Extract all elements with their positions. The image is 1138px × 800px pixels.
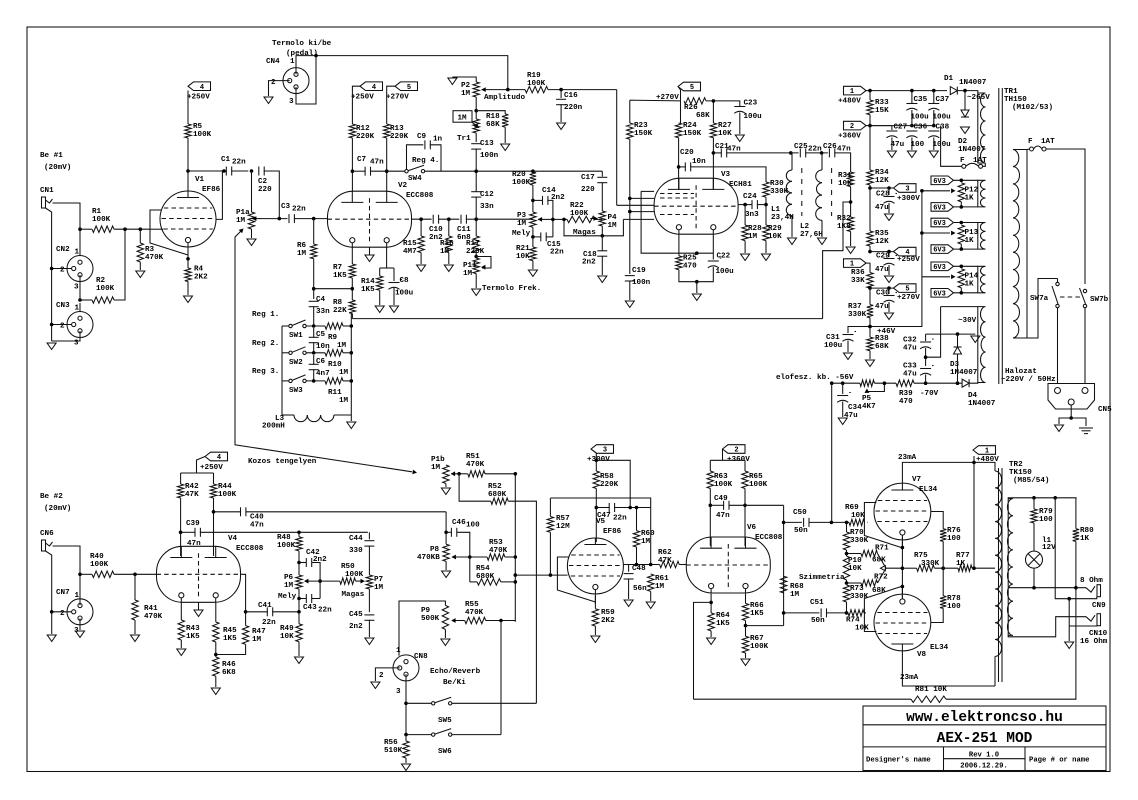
wire R60 bottom xyxy=(636,547,638,565)
svg-text:470K: 470K xyxy=(144,613,163,621)
svg-text:47K: 47K xyxy=(185,491,199,499)
wire xyxy=(678,253,680,256)
wire xyxy=(475,219,477,236)
junction xyxy=(709,601,713,605)
potentiometer P5 xyxy=(860,380,875,386)
junction xyxy=(562,218,566,222)
wire reg left bus xyxy=(281,326,283,415)
svg-text:Mely: Mely xyxy=(512,230,531,238)
svg-text:SW7b: SW7b xyxy=(1090,296,1109,304)
wire to C29 xyxy=(888,252,890,257)
svg-text:Rev 1.0: Rev 1.0 xyxy=(969,752,999,760)
wiper P1b xyxy=(451,473,459,475)
winding TR1 6V3 winding P13 xyxy=(978,223,986,250)
svg-text:470K: 470K xyxy=(465,609,484,617)
ground xyxy=(846,247,855,254)
svg-text:3: 3 xyxy=(289,98,294,106)
resistor R51 xyxy=(468,471,485,477)
wire R26 to R27 xyxy=(706,101,713,123)
resistor R41 xyxy=(132,600,138,620)
diode D3 xyxy=(954,347,962,354)
svg-text:33n: 33n xyxy=(480,203,494,211)
wire xyxy=(850,232,852,247)
wire xyxy=(459,473,468,475)
resistor R37 xyxy=(867,305,873,318)
svg-text:P1a: P1a xyxy=(236,209,250,217)
wire to R49 xyxy=(298,599,300,624)
junction xyxy=(868,124,872,128)
resistor R49 xyxy=(296,624,302,642)
wire xyxy=(379,268,381,276)
wire C14 right down xyxy=(547,200,553,237)
wire CN1 to bus xyxy=(46,208,52,341)
wire to R18 xyxy=(476,111,505,114)
ground xyxy=(47,343,56,350)
svg-text:C33: C33 xyxy=(903,363,917,371)
wire C2 right down xyxy=(264,171,280,219)
switch SW2 xyxy=(289,351,292,354)
wire V3 g line1 xyxy=(641,190,654,192)
svg-text:EL34: EL34 xyxy=(919,486,938,494)
svg-text:56n: 56n xyxy=(633,585,647,593)
wire xyxy=(214,511,241,513)
resistor R45 xyxy=(213,622,219,642)
svg-text:R51: R51 xyxy=(466,453,480,461)
winding TR1 HV winding xyxy=(978,93,986,163)
svg-text:1M: 1M xyxy=(339,369,349,377)
wire to C16 xyxy=(560,90,562,98)
earth ground xyxy=(1079,427,1093,429)
wire xyxy=(80,299,92,301)
wire V3 g line3 xyxy=(617,204,654,206)
wire xyxy=(245,612,247,626)
wire R6 to C4 xyxy=(313,259,315,299)
wire reg right bus xyxy=(350,314,352,416)
svg-text:R38: R38 xyxy=(875,335,889,343)
svg-text:C9: C9 xyxy=(417,133,427,141)
resistor R48 xyxy=(296,537,302,551)
svg-text:200mH: 200mH xyxy=(262,423,285,431)
wire CN3 pin1 xyxy=(79,303,81,312)
svg-text:SW1: SW1 xyxy=(289,332,303,340)
svg-text:470KB: 470KB xyxy=(417,554,440,562)
capacitor C1 xyxy=(225,167,227,176)
svg-text:C7: C7 xyxy=(357,156,367,164)
svg-text:10K: 10K xyxy=(848,565,862,573)
svg-text:R75: R75 xyxy=(914,552,928,560)
ground xyxy=(177,649,186,656)
junction xyxy=(297,531,301,535)
wire to P3 node xyxy=(476,218,533,220)
junction xyxy=(297,561,301,565)
svg-text:6V3: 6V3 xyxy=(933,247,946,255)
wire CN4 pin3 xyxy=(296,56,316,104)
svg-text:R67: R67 xyxy=(750,635,764,643)
wire R42 to anode1 xyxy=(180,498,182,556)
resistor R43 xyxy=(178,620,184,640)
wire sec top xyxy=(1008,497,1076,500)
wire C32 top xyxy=(926,333,976,335)
wire xyxy=(629,281,631,301)
ground xyxy=(646,602,655,609)
svg-text:R2: R2 xyxy=(96,277,106,285)
wire P6 wiper to R50 xyxy=(310,580,340,582)
ground xyxy=(211,688,220,695)
wire V7 g2 xyxy=(931,512,943,529)
wire xyxy=(869,91,871,100)
junction xyxy=(447,217,451,221)
svg-text:3: 3 xyxy=(74,284,79,292)
junction xyxy=(910,89,914,93)
junction xyxy=(868,325,872,329)
wire bus A xyxy=(514,474,516,622)
svg-text:C24: C24 xyxy=(743,193,757,201)
wire xyxy=(891,138,893,151)
resistor R69 xyxy=(849,519,865,525)
switch SW3 xyxy=(289,379,292,382)
svg-text:R1: R1 xyxy=(92,208,102,216)
winding TR2 secondary xyxy=(1007,499,1013,636)
wire xyxy=(745,621,747,637)
svg-text:R53: R53 xyxy=(489,539,503,547)
junction xyxy=(677,165,681,169)
resistor R12 xyxy=(349,124,355,138)
capacitor C13 xyxy=(471,143,481,145)
wire to R21 xyxy=(532,237,534,247)
wire xyxy=(313,328,315,338)
svg-text:4M7: 4M7 xyxy=(403,248,417,256)
capacitor C20 xyxy=(684,162,686,171)
svg-text:150K: 150K xyxy=(683,130,702,138)
ground xyxy=(472,289,481,296)
junction xyxy=(222,169,226,173)
resistor R65 xyxy=(742,471,748,489)
capacitor C26 xyxy=(828,148,830,157)
wire xyxy=(313,369,315,381)
svg-text:1N4007: 1N4007 xyxy=(959,79,987,87)
svg-text:100n: 100n xyxy=(632,279,651,287)
wire xyxy=(925,348,927,366)
capacitor C51 xyxy=(820,608,822,617)
svg-text:V7: V7 xyxy=(912,476,922,484)
svg-text:R40: R40 xyxy=(90,553,104,561)
power flag 2 +360V xyxy=(844,121,867,130)
switch SW1 xyxy=(289,324,292,327)
wire xyxy=(888,203,890,213)
junction xyxy=(841,381,845,385)
svg-text:Designer's name: Designer's name xyxy=(866,757,931,765)
svg-text:SW3: SW3 xyxy=(289,387,303,395)
wire xyxy=(744,205,746,225)
L1 core xyxy=(801,168,803,216)
junction xyxy=(350,324,354,328)
ground V4 shield xyxy=(194,610,203,617)
resistor R22 xyxy=(567,216,595,222)
ground xyxy=(76,631,85,638)
wire V3 g line2 xyxy=(630,197,654,199)
svg-text:Mely: Mely xyxy=(278,593,297,601)
junction xyxy=(595,506,599,510)
wire xyxy=(246,611,268,613)
junction xyxy=(649,563,653,567)
potentiometer P9 xyxy=(442,605,448,629)
svg-text:R81 10K: R81 10K xyxy=(915,686,947,694)
wire to SW6 xyxy=(500,621,502,735)
ground xyxy=(741,659,750,666)
svg-text:www.elektroncso.hu: www.elektroncso.hu xyxy=(906,710,1063,726)
wire R24 to anode xyxy=(678,138,680,190)
capacitor C12 xyxy=(471,191,481,193)
svg-text:50n: 50n xyxy=(811,617,825,625)
svg-text:1K: 1K xyxy=(965,195,975,203)
capacitor C46 xyxy=(450,528,452,537)
junction xyxy=(297,597,301,601)
power flag 4 +250V d xyxy=(205,452,228,461)
diode D1 xyxy=(950,87,957,95)
svg-text:100K: 100K xyxy=(193,131,212,139)
wire CN5 earth left xyxy=(1059,405,1071,424)
wire R72 to wiper xyxy=(878,568,887,583)
capacitor C35 xyxy=(906,103,917,105)
wire xyxy=(1033,498,1035,509)
wire R34 down xyxy=(869,185,871,231)
wire C9 loop right xyxy=(430,145,441,171)
junction xyxy=(960,179,964,183)
svg-text:P13: P13 xyxy=(965,229,979,237)
ground V2 shield xyxy=(365,255,374,262)
svg-text:330K: 330K xyxy=(921,560,940,568)
power flag 6V3 1b xyxy=(931,245,954,254)
svg-text:Magas: Magas xyxy=(573,229,596,237)
wire CN9 sleeve xyxy=(1055,498,1097,599)
ground xyxy=(365,638,374,645)
connector CN1 xyxy=(42,197,46,208)
wire xyxy=(846,602,848,613)
wire CN10 sleeve xyxy=(1069,625,1097,627)
wire xyxy=(847,341,849,353)
svg-text:100K: 100K xyxy=(92,216,111,224)
wire R13 to anode2 xyxy=(386,138,388,191)
svg-text:R50: R50 xyxy=(341,563,355,571)
potentiometer P1a xyxy=(248,212,254,229)
svg-text:P8: P8 xyxy=(430,546,440,554)
svg-text:2n2: 2n2 xyxy=(582,259,596,267)
svg-text:R46: R46 xyxy=(222,661,236,669)
svg-text:R34: R34 xyxy=(875,169,889,177)
svg-text:100K: 100K xyxy=(714,481,733,489)
svg-text:R42: R42 xyxy=(185,483,199,491)
switch SW5 xyxy=(432,702,435,705)
svg-text:Halozat: Halozat xyxy=(1005,368,1037,376)
resistor R47 xyxy=(242,626,248,645)
junction xyxy=(318,579,322,583)
svg-text:1: 1 xyxy=(75,249,80,257)
wire to C28 xyxy=(888,188,890,195)
capacitor C45 xyxy=(364,614,374,616)
wire to SW4 xyxy=(387,170,405,172)
wire xyxy=(911,91,913,103)
wire xyxy=(445,561,447,570)
svg-text:CN6: CN6 xyxy=(40,530,54,538)
wire C3 to V2 xyxy=(294,218,328,220)
wire xyxy=(846,522,848,532)
wire to C39 xyxy=(181,531,196,533)
wire xyxy=(356,580,361,582)
svg-text:R45: R45 xyxy=(223,627,237,635)
ground xyxy=(247,239,256,246)
junction xyxy=(549,573,553,577)
junction xyxy=(595,459,599,463)
wire to C48 xyxy=(628,565,630,572)
ground xyxy=(929,151,938,158)
wire R80 bottom xyxy=(1075,541,1077,587)
wire P1a to C3 xyxy=(262,218,288,220)
wire 6V3 0 bot xyxy=(954,206,978,208)
rheostat link P11 xyxy=(476,257,491,269)
svg-text:R39: R39 xyxy=(899,390,913,398)
wire to C30 xyxy=(888,288,890,294)
svg-text:R41: R41 xyxy=(144,605,158,613)
svg-text:R9: R9 xyxy=(328,334,338,342)
connector CN10 xyxy=(1086,615,1095,621)
svg-text:R73: R73 xyxy=(850,585,864,593)
wire xyxy=(870,251,894,253)
ground xyxy=(624,600,633,607)
junction xyxy=(920,231,924,235)
wire to SW5 xyxy=(406,702,432,704)
svg-text:500K: 500K xyxy=(421,615,440,623)
svg-text:Amplitudo: Amplitudo xyxy=(484,94,525,102)
wire wiper P12 xyxy=(922,190,950,192)
junction xyxy=(782,521,786,525)
junction xyxy=(78,227,82,231)
svg-text:1M: 1M xyxy=(252,636,262,644)
svg-text:R32: R32 xyxy=(837,215,851,223)
svg-text:R54: R54 xyxy=(476,565,490,573)
wire 8ohm xyxy=(1008,587,1086,589)
svg-text:C41: C41 xyxy=(258,602,272,610)
svg-text:C12: C12 xyxy=(480,191,494,199)
svg-text:4K7: 4K7 xyxy=(862,403,876,411)
capacitor C14 xyxy=(542,196,544,205)
capacitor C49 xyxy=(723,501,725,510)
wire +250V to R5 xyxy=(187,91,189,125)
svg-text:1K: 1K xyxy=(965,281,975,289)
svg-text:R63: R63 xyxy=(714,473,728,481)
winding TR1 primary xyxy=(1013,150,1027,339)
svg-text:+250V: +250V xyxy=(897,256,920,264)
svg-text:P5: P5 xyxy=(862,395,872,403)
svg-text:R4: R4 xyxy=(194,266,204,274)
junction xyxy=(514,555,518,559)
wire D1 to TR1 xyxy=(957,91,978,93)
junction xyxy=(474,217,478,221)
svg-text:100: 100 xyxy=(947,603,961,611)
resistor R24 xyxy=(675,123,681,138)
wire run down to C46 xyxy=(445,512,447,533)
wire xyxy=(299,562,306,564)
svg-text:680K: 680K xyxy=(476,573,495,581)
svg-text:+360V: +360V xyxy=(838,133,861,141)
svg-text:6V3: 6V3 xyxy=(933,290,946,298)
svg-text:L2: L2 xyxy=(800,223,810,231)
power flag 5 +270V c xyxy=(678,82,701,91)
switch SW4 xyxy=(405,170,408,173)
svg-text:C38: C38 xyxy=(936,124,950,132)
svg-text:100: 100 xyxy=(1039,516,1053,524)
junction xyxy=(743,203,747,207)
svg-text:220K: 220K xyxy=(600,481,619,489)
wire Magas bracket xyxy=(564,219,623,235)
wire osc to bus jog xyxy=(823,202,851,319)
capacitor C33 xyxy=(920,368,931,370)
junction xyxy=(474,255,478,259)
svg-text:2: 2 xyxy=(734,447,738,455)
svg-text:1M: 1M xyxy=(236,217,246,225)
wire xyxy=(745,653,747,658)
svg-text:100n: 100n xyxy=(480,152,499,160)
pot Tr1 element xyxy=(473,119,479,133)
svg-text:R77: R77 xyxy=(956,552,970,560)
wire flag3 stem xyxy=(591,449,596,471)
svg-text:P11: P11 xyxy=(463,262,477,270)
potentiometer P11 xyxy=(473,258,479,274)
svg-text:V3: V3 xyxy=(721,171,731,179)
junction xyxy=(628,197,632,201)
resistor R13 xyxy=(384,124,390,138)
svg-text:50n: 50n xyxy=(794,527,808,535)
svg-text:1: 1 xyxy=(985,448,989,456)
junction xyxy=(960,205,964,209)
svg-text:100: 100 xyxy=(911,141,925,149)
svg-text:6V3: 6V3 xyxy=(933,264,946,272)
junction xyxy=(1032,586,1036,590)
wire R60 top xyxy=(636,508,638,531)
wire xyxy=(546,236,553,238)
wire xyxy=(805,152,828,154)
junction xyxy=(924,355,928,359)
svg-text:1M: 1M xyxy=(440,248,450,256)
junction xyxy=(514,573,518,577)
wire 16ohm xyxy=(1008,617,1086,637)
junction xyxy=(712,99,716,103)
svg-text:100K: 100K xyxy=(570,210,589,218)
ground xyxy=(885,276,894,283)
wire xyxy=(457,620,464,622)
svg-text:C6: C6 xyxy=(316,358,326,366)
capacitor C21 xyxy=(720,148,722,157)
wire R45-R47 link xyxy=(216,644,246,654)
ground xyxy=(136,271,145,278)
svg-text:1K8: 1K8 xyxy=(837,223,851,231)
svg-text:R27: R27 xyxy=(718,122,732,130)
resistor R11 xyxy=(325,378,343,384)
svg-text:R44: R44 xyxy=(218,483,232,491)
svg-text:R64: R64 xyxy=(716,612,730,620)
svg-text:C19: C19 xyxy=(632,267,646,275)
ground xyxy=(1065,642,1074,649)
wire xyxy=(560,104,562,122)
mech link P1a-P1b xyxy=(235,232,412,472)
svg-text:R47: R47 xyxy=(252,628,266,636)
wire to R56 xyxy=(405,735,407,741)
svg-text:R7: R7 xyxy=(333,264,343,272)
capacitor C32 xyxy=(920,341,931,343)
svg-text:CN9: CN9 xyxy=(1092,602,1106,610)
junction xyxy=(845,581,849,585)
svg-text:10n: 10n xyxy=(692,158,706,166)
svg-text:100K: 100K xyxy=(527,80,546,88)
